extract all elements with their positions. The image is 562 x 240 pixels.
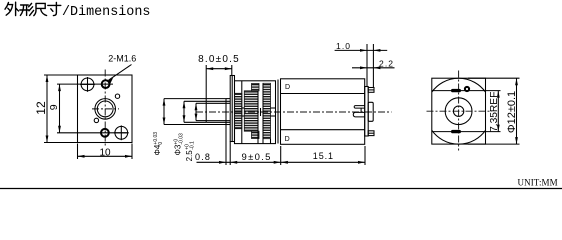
svg-text:9±0.5: 9±0.5 — [242, 152, 272, 163]
svg-text:0: 0 — [158, 142, 164, 145]
svg-text:2.5: 2.5 — [185, 150, 194, 162]
svg-text:0.8: 0.8 — [195, 152, 211, 162]
svg-text:Φ3: Φ3 — [174, 144, 183, 155]
svg-text:UNIT:MM: UNIT:MM — [518, 177, 558, 187]
svg-text:-0.03: -0.03 — [178, 133, 184, 145]
svg-text:15.1: 15.1 — [313, 151, 334, 161]
svg-text:2-M1.6: 2-M1.6 — [108, 54, 136, 64]
svg-text:Φ12±0.1: Φ12±0.1 — [506, 91, 518, 133]
svg-text:7.35REF: 7.35REF — [489, 92, 500, 132]
svg-text:Φ4: Φ4 — [153, 144, 162, 155]
svg-text:D: D — [285, 136, 290, 143]
svg-text:10: 10 — [99, 148, 111, 159]
svg-text:/Dimensions: /Dimensions — [62, 5, 150, 20]
svg-text:-0.1: -0.1 — [190, 141, 196, 150]
svg-text:9: 9 — [48, 104, 60, 110]
svg-text:12: 12 — [34, 101, 48, 115]
svg-text:8.0±0.5: 8.0±0.5 — [198, 54, 240, 65]
svg-text:D: D — [285, 84, 290, 91]
svg-text:1.0: 1.0 — [336, 41, 351, 51]
svg-text:2.2: 2.2 — [379, 58, 394, 68]
